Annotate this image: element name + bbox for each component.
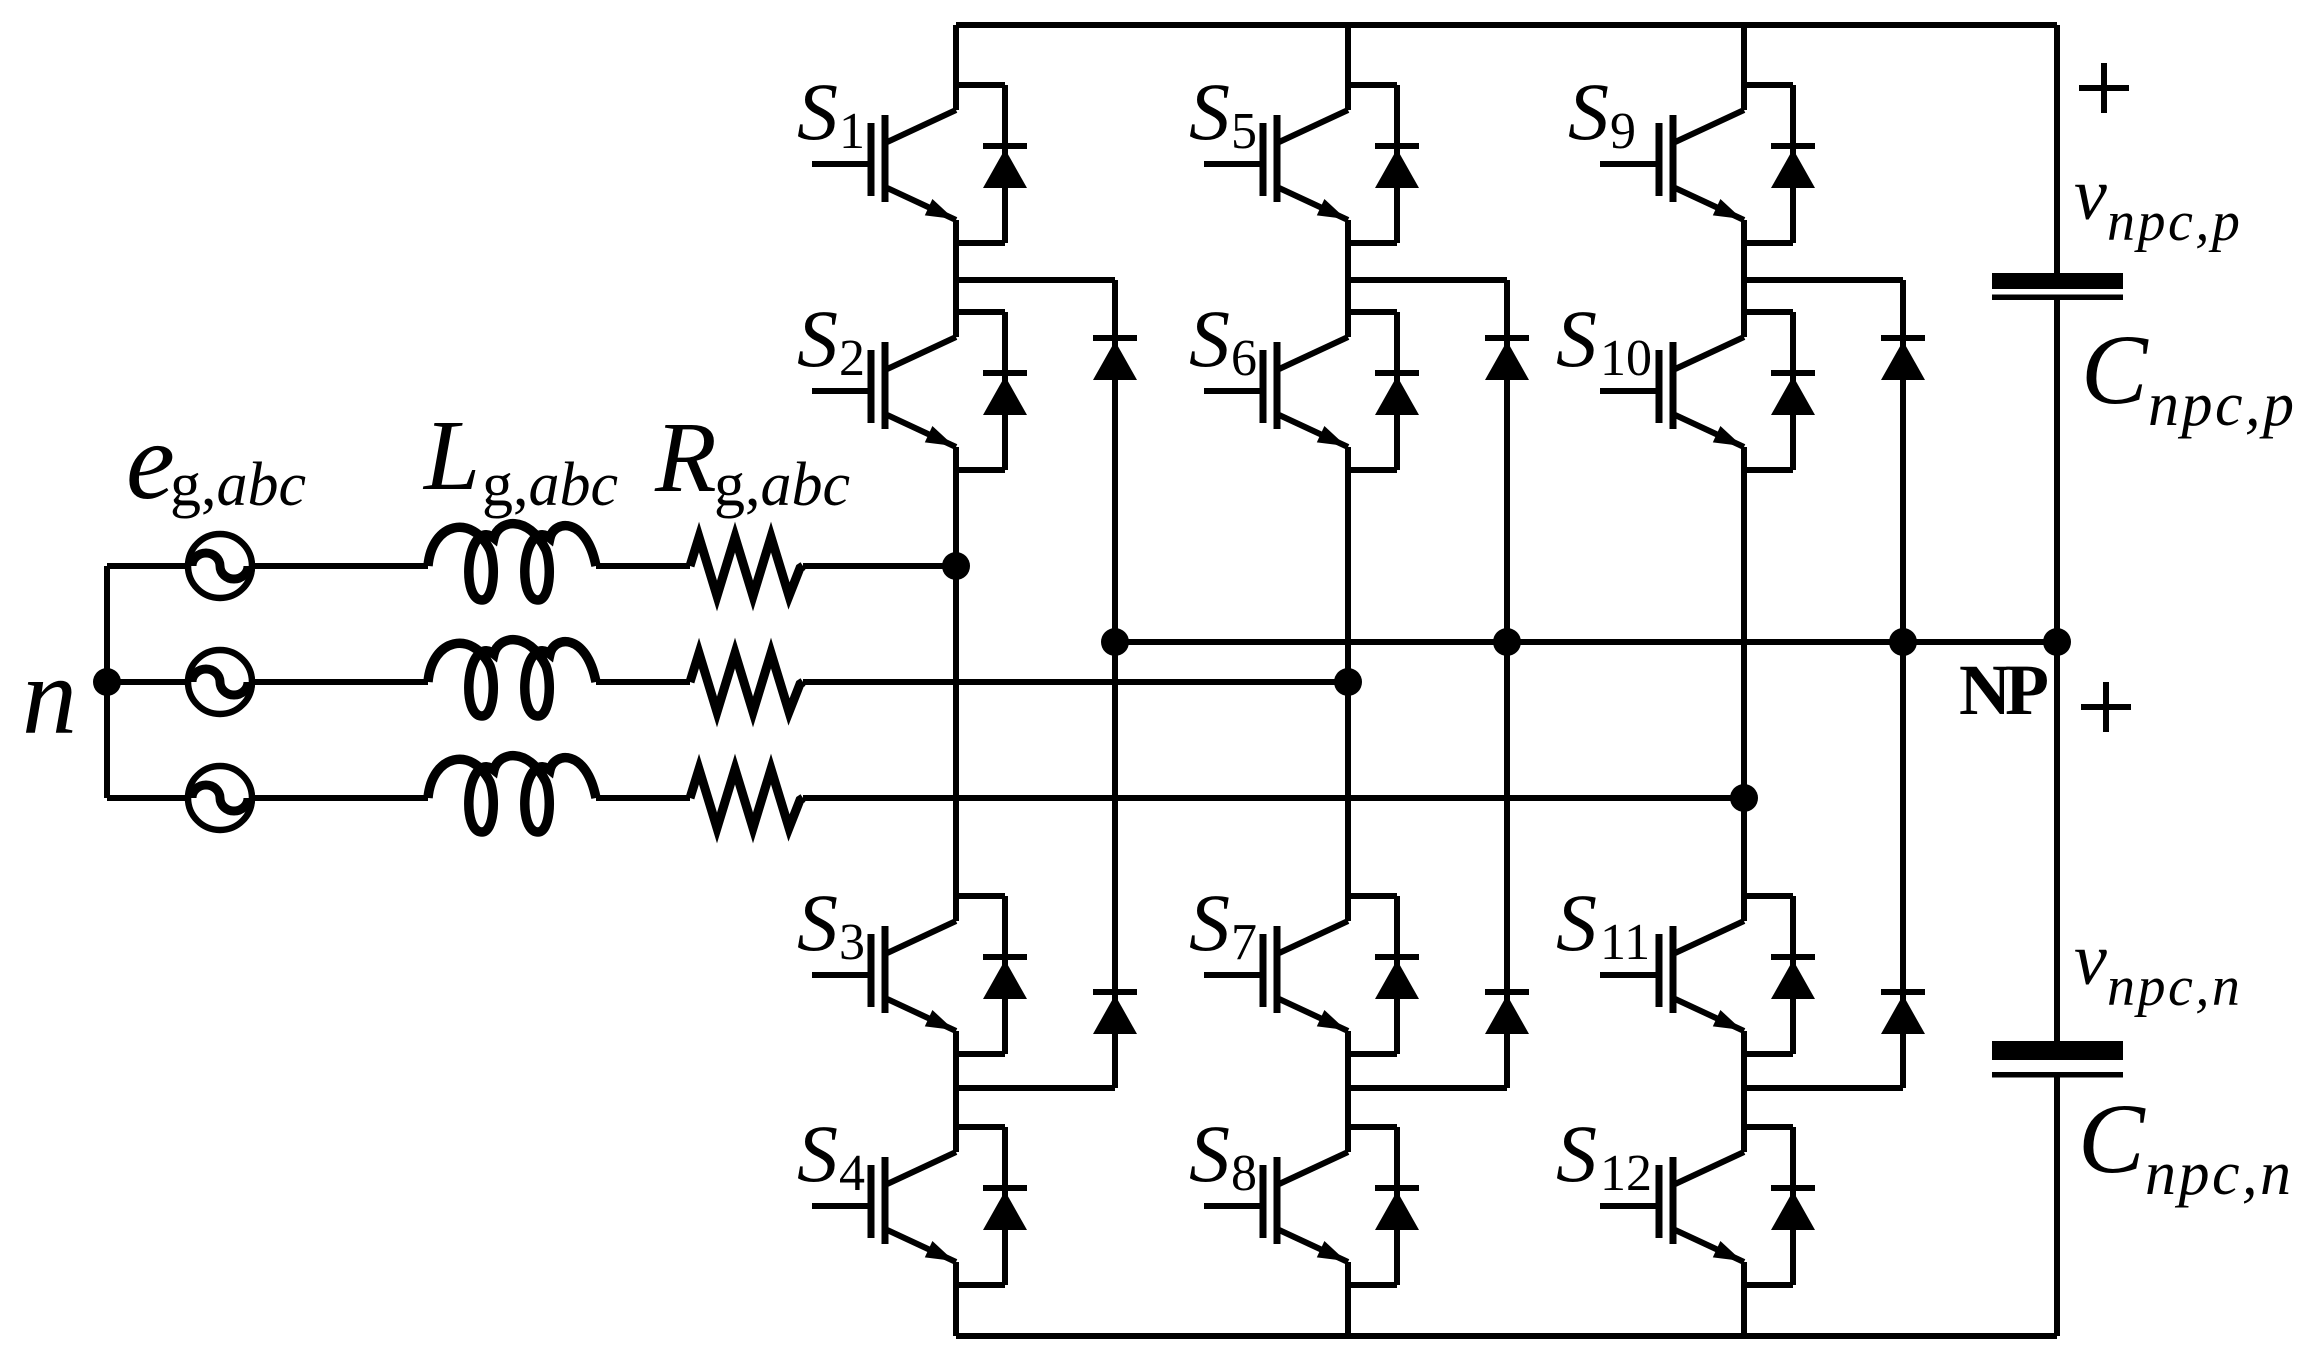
transistor S6 (IGBT with antiparallel diode) bbox=[1204, 312, 1419, 470]
svg-text:npc,p: npc,p bbox=[2148, 371, 2297, 439]
svg-text:n: n bbox=[22, 635, 77, 757]
node: phase a connection bbox=[942, 552, 970, 580]
wire inductor to resistor phase a bbox=[596, 563, 690, 569]
wire: leg B upper clamp branch bbox=[1348, 277, 1507, 283]
svg-text:g,abc: g,abc bbox=[170, 451, 306, 519]
AC source e_g,a bbox=[188, 534, 252, 598]
svg-text:e: e bbox=[126, 400, 175, 522]
svg-text:7: 7 bbox=[1231, 914, 1257, 971]
clamp diode Db2 (lower) bbox=[1485, 992, 1529, 1034]
svg-text:12: 12 bbox=[1600, 1145, 1652, 1202]
node: phase c connection bbox=[1730, 784, 1758, 812]
wire: leg A clamp column bbox=[1112, 280, 1118, 1088]
svg-text:v: v bbox=[2074, 154, 2107, 236]
svg-text:2: 2 bbox=[839, 330, 865, 387]
node: leg C clamp midpoint on NP line bbox=[1889, 628, 1917, 656]
resistor R_g,c bbox=[690, 769, 803, 828]
wire: leg A vertical segments bbox=[953, 25, 959, 110]
node: phase b connection bbox=[1334, 668, 1362, 696]
transistor S5 (IGBT with antiparallel diode) bbox=[1204, 85, 1419, 243]
svg-text:L: L bbox=[422, 399, 480, 511]
AC source e_g,c bbox=[188, 766, 252, 830]
svg-text:g,abc: g,abc bbox=[482, 451, 618, 519]
wire: leg B lower clamp branch bbox=[1348, 1085, 1507, 1091]
svg-text:10: 10 bbox=[1600, 330, 1652, 387]
transistor S12 (IGBT with antiparallel diode) bbox=[1600, 1127, 1815, 1285]
capacitor C_npc,p bbox=[1992, 273, 2123, 289]
wire phase b to leg B bbox=[803, 679, 1348, 685]
svg-text:5: 5 bbox=[1231, 103, 1257, 160]
wire: leg C upper clamp branch bbox=[1744, 277, 1903, 283]
svg-text:S: S bbox=[1189, 66, 1230, 157]
svg-text:S: S bbox=[1189, 1108, 1230, 1199]
wire: phase c from n-bus to source bbox=[107, 795, 188, 801]
svg-text:S: S bbox=[797, 293, 838, 384]
svg-text:S: S bbox=[1189, 877, 1230, 968]
wire: leg A upper clamp branch bbox=[956, 277, 1115, 283]
svg-text:11: 11 bbox=[1600, 914, 1650, 971]
clamp diode Dc2 (lower) bbox=[1881, 992, 1925, 1034]
wire: leg C clamp column bbox=[1900, 280, 1906, 1088]
clamp diode Da1 (upper) bbox=[1093, 338, 1137, 380]
wire: phase a from n-bus to source bbox=[107, 563, 188, 569]
svg-text:S: S bbox=[1556, 1108, 1597, 1199]
clamp diode Dc1 (upper) bbox=[1881, 338, 1925, 380]
svg-text:S: S bbox=[1556, 293, 1597, 384]
svg-text:R: R bbox=[654, 401, 717, 513]
svg-text:C: C bbox=[2078, 1083, 2146, 1194]
node: leg B clamp midpoint on NP line bbox=[1493, 628, 1521, 656]
transistor S11 (IGBT with antiparallel diode) bbox=[1600, 896, 1815, 1054]
wire: leg B vertical segments bbox=[1345, 25, 1351, 110]
svg-text:S: S bbox=[797, 877, 838, 968]
svg-text:S: S bbox=[797, 1108, 838, 1199]
resistor R_g,b bbox=[690, 653, 803, 712]
svg-text:C: C bbox=[2081, 314, 2149, 425]
svg-text:S: S bbox=[1568, 66, 1609, 157]
svg-text:9: 9 bbox=[1610, 103, 1636, 160]
svg-text:3: 3 bbox=[839, 914, 865, 971]
plus sign (v_npc,n polarity) bbox=[2081, 704, 2131, 710]
svg-text:8: 8 bbox=[1231, 1145, 1257, 1202]
wire: positive DC rail (top) bbox=[956, 22, 2057, 28]
transistor S2 (IGBT with antiparallel diode) bbox=[812, 312, 1027, 470]
svg-text:S: S bbox=[797, 66, 838, 157]
node n : left neutral bus bbox=[104, 566, 110, 798]
node n junction dot bbox=[93, 668, 121, 696]
wire: leg A lower clamp branch bbox=[956, 1085, 1115, 1091]
wire phase a to leg A bbox=[803, 563, 956, 569]
inductor L_g,a bbox=[428, 524, 596, 600]
wire: negative DC rail (bottom) bbox=[956, 1333, 2057, 1339]
svg-text:npc,p: npc,p bbox=[2107, 191, 2242, 253]
wire: leg C vertical segments bbox=[1741, 25, 1747, 110]
svg-text:1: 1 bbox=[839, 103, 865, 160]
transistor S3 (IGBT with antiparallel diode) bbox=[812, 896, 1027, 1054]
transistor S4 (IGBT with antiparallel diode) bbox=[812, 1127, 1027, 1285]
wire: neutral point (NP) line bbox=[1115, 639, 2057, 645]
wire source to inductor phase c bbox=[252, 795, 428, 801]
capacitor C_npc,n bbox=[1992, 1041, 2123, 1060]
svg-text:NP: NP bbox=[1959, 650, 2047, 730]
wire: leg C lower clamp branch bbox=[1744, 1085, 1903, 1091]
wire phase c to leg C bbox=[803, 795, 1744, 801]
clamp diode Da2 (lower) bbox=[1093, 992, 1137, 1034]
svg-text:npc,n: npc,n bbox=[2145, 1140, 2294, 1208]
AC source e_g,b bbox=[188, 650, 252, 714]
wire inductor to resistor phase c bbox=[596, 795, 690, 801]
svg-text:4: 4 bbox=[839, 1145, 865, 1202]
node: leg A clamp midpoint on NP line bbox=[1101, 628, 1129, 656]
resistor R_g,a bbox=[690, 537, 803, 596]
wire: leg B clamp column bbox=[1504, 280, 1510, 1088]
wire source to inductor phase a bbox=[252, 563, 428, 569]
transistor S8 (IGBT with antiparallel diode) bbox=[1204, 1127, 1419, 1285]
wire inductor to resistor phase b bbox=[596, 679, 690, 685]
svg-text:g,abc: g,abc bbox=[714, 451, 850, 519]
plus sign (v_npc,p polarity) bbox=[2079, 85, 2129, 91]
svg-text:v: v bbox=[2074, 919, 2107, 1001]
svg-text:npc,n: npc,n bbox=[2107, 956, 2242, 1018]
transistor S9 (IGBT with antiparallel diode) bbox=[1600, 85, 1815, 243]
inductor L_g,b bbox=[428, 640, 596, 716]
inductor L_g,c bbox=[428, 756, 596, 832]
node NP on DC bus bbox=[2043, 628, 2071, 656]
transistor S7 (IGBT with antiparallel diode) bbox=[1204, 896, 1419, 1054]
wire: DC bus right vertical segments bbox=[2054, 25, 2060, 273]
svg-text:S: S bbox=[1189, 293, 1230, 384]
transistor S1 (IGBT with antiparallel diode) bbox=[812, 85, 1027, 243]
svg-text:S: S bbox=[1556, 877, 1597, 968]
wire source to inductor phase b bbox=[252, 679, 428, 685]
transistor S10 (IGBT with antiparallel diode) bbox=[1600, 312, 1815, 470]
svg-text:6: 6 bbox=[1231, 330, 1257, 387]
clamp diode Db1 (upper) bbox=[1485, 338, 1529, 380]
wire: phase b from n-bus to source bbox=[107, 679, 188, 685]
